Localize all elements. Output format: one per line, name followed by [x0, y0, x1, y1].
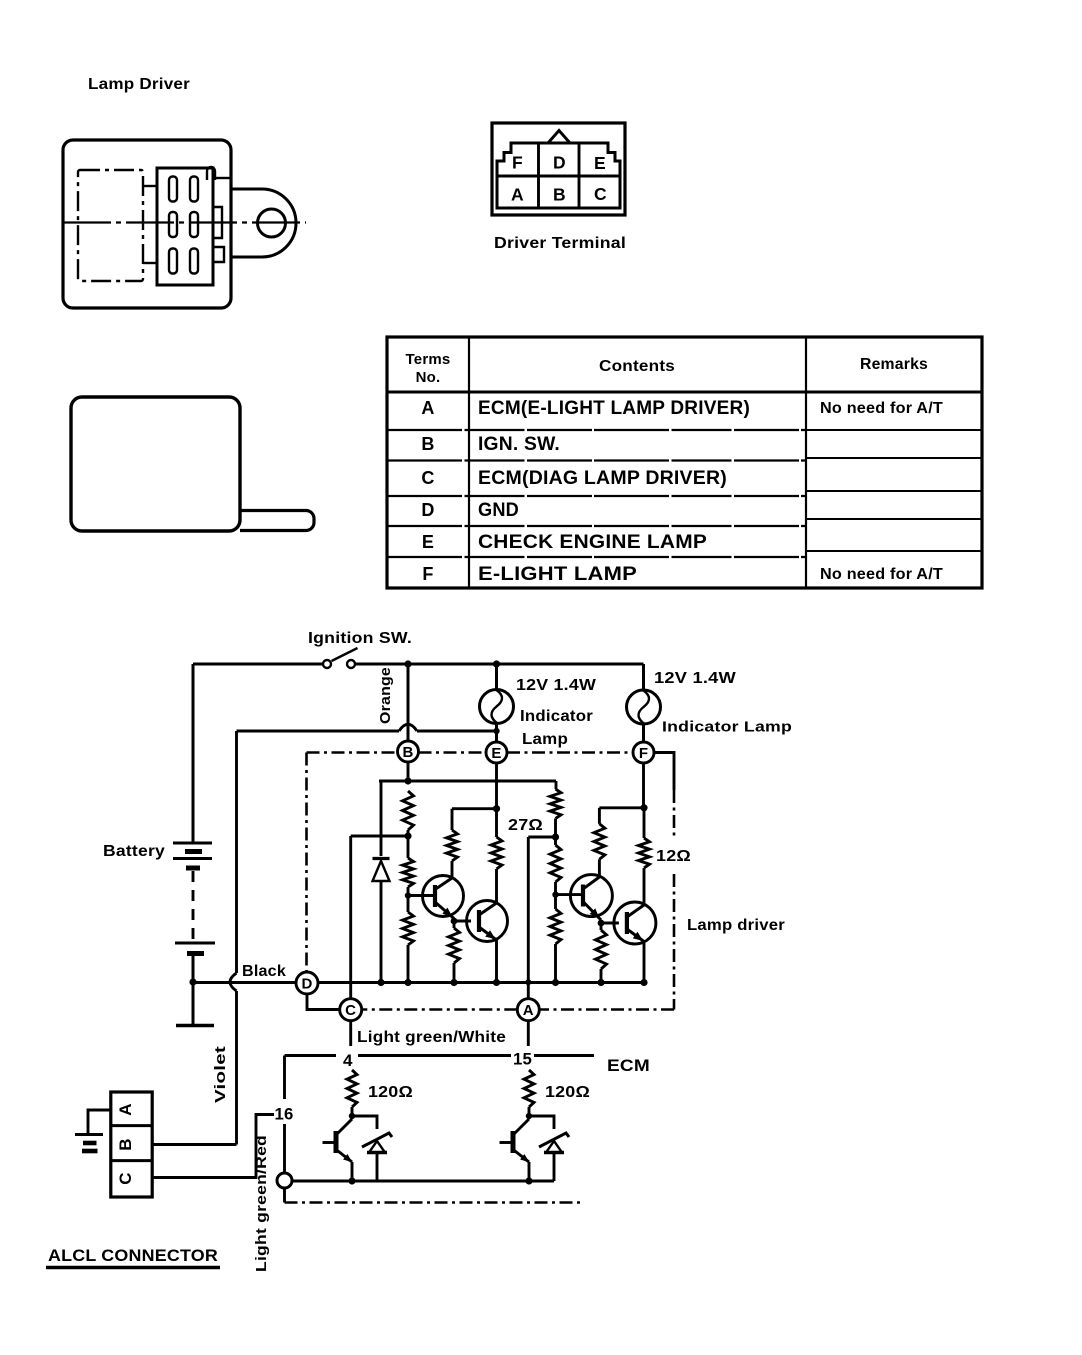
label: ALCL CONNECTOR	[46, 1246, 220, 1268]
label: 12 ohm	[656, 848, 691, 865]
connector: driver terminal pinout	[492, 123, 625, 215]
junction: R6 to ground rail	[450, 979, 457, 986]
pin D label	[553, 153, 566, 173]
node B: relay terminal B	[398, 741, 419, 762]
resistor R4 (Q1 collector load)	[447, 809, 458, 878]
junction on top rail at Orange drop	[404, 660, 411, 667]
table row C: ECM(DIAG LAMP DRIVER)	[421, 468, 727, 489]
svg-text:Lamp: Lamp	[522, 731, 568, 748]
svg-text:A: A	[511, 185, 524, 205]
resistor 120 ohm (elight driver)	[524, 1070, 534, 1116]
svg-text:Lamp Driver: Lamp Driver	[88, 76, 190, 93]
junction: Q3 base node	[552, 891, 558, 897]
junction: diag emitter at rail	[348, 1177, 355, 1184]
resistor R8 (node Y to Q3 base)	[550, 845, 561, 895]
svg-text:D: D	[421, 500, 434, 520]
svg-text:Battery: Battery	[103, 843, 165, 860]
transistor ECM diag driver	[323, 1119, 353, 1181]
svg-text:F: F	[422, 564, 433, 584]
svg-text:IGN. SW.: IGN. SW.	[478, 434, 560, 455]
wire: internal bias rail from B	[379, 780, 556, 783]
svg-text:16: 16	[275, 1105, 294, 1124]
svg-text:A: A	[116, 1103, 135, 1115]
svg-text:E: E	[594, 153, 606, 173]
wire hop: E-lamp wire over Orange wire	[399, 724, 417, 731]
junction: elight emitter at rail	[525, 1177, 532, 1184]
svg-text:15: 15	[513, 1050, 532, 1069]
table row E: CHECK ENGINE LAMP	[422, 532, 707, 553]
pin A label	[511, 185, 524, 205]
svg-text:ECM(DIAG LAMP DRIVER): ECM(DIAG LAMP DRIVER)	[478, 468, 727, 489]
svg-text:B: B	[402, 744, 413, 761]
connector: ALCL diagnostic connector	[111, 1092, 152, 1197]
table header Terms No.	[406, 351, 451, 386]
wire: ECM left drop to pin 16	[283, 1056, 286, 1174]
transistor Q3	[570, 875, 612, 920]
wire: node B to bias rail	[407, 762, 410, 781]
svg-text:ALCL CONNECTOR: ALCL CONNECTOR	[48, 1246, 218, 1265]
wire: internal ground rail	[318, 981, 644, 984]
zener diode (diag clamp)	[362, 1133, 392, 1181]
wire: check lamp to node E	[495, 724, 498, 743]
svg-text:12Ω: 12Ω	[656, 848, 691, 865]
svg-text:E: E	[491, 745, 501, 762]
pin 16 label	[275, 1105, 294, 1124]
resistor R1 (B to node X)	[403, 791, 414, 858]
junction: Q3 emitter / Q4 base node	[598, 920, 605, 927]
svg-text:F: F	[639, 745, 648, 762]
svg-text:A: A	[421, 398, 434, 418]
relay K1 side view outline	[71, 397, 314, 531]
table header Contents	[599, 358, 675, 375]
resistor R6 (Q2 base to ground)	[449, 921, 460, 983]
svg-text:Ignition SW.: Ignition SW.	[308, 630, 412, 647]
pin B label	[553, 185, 566, 205]
label: 120 ohm (pin 15)	[545, 1084, 590, 1101]
wire: ALCL B to Violet	[152, 1143, 236, 1146]
ground: chassis ground bar	[176, 1024, 214, 1028]
junction: Q1 base node	[405, 892, 411, 898]
node A: relay terminal A	[517, 999, 539, 1021]
wire: terminal A to ECM pin 15	[527, 1021, 530, 1046]
wire: pin 16 to ECM boundary	[283, 1188, 286, 1203]
table row F: E-LIGHT LAMP	[422, 564, 943, 585]
node E: relay terminal E	[486, 742, 507, 763]
table row D: GND	[421, 500, 519, 521]
svg-text:D: D	[553, 153, 566, 173]
zener diode (elight clamp)	[539, 1133, 569, 1181]
label: 12V 1.4W (E-light lamp)	[654, 670, 736, 687]
wire: bias rail corner to right chain	[555, 781, 558, 789]
resistor R3 (Q1 base to ground)	[403, 896, 414, 983]
wire: node E down the lamp column	[495, 763, 498, 809]
svg-text:CHECK ENGINE LAMP: CHECK ENGINE LAMP	[478, 532, 707, 553]
label: Driver Terminal	[494, 235, 626, 252]
svg-text:No.: No.	[416, 369, 441, 386]
label: Black wire	[242, 963, 286, 980]
wire: A column up to node Y	[528, 837, 555, 999]
resistor R10 (Q3 collector load)	[594, 808, 605, 877]
junction: diag collector node	[349, 1113, 355, 1119]
wire: battery negative down to chassis	[192, 982, 195, 1024]
wire: ECM top tie bar	[285, 1054, 595, 1057]
junction: R9 to ground rail	[552, 979, 559, 986]
svg-text:Remarks: Remarks	[860, 356, 928, 373]
label: Violet wire	[212, 1046, 229, 1103]
resistor 120 ohm (diag driver)	[347, 1070, 357, 1116]
wire: Violet vertical run	[235, 731, 238, 1145]
boundary: lamp driver bottom edge (dash-dot)	[362, 1008, 674, 1011]
pin C label	[594, 184, 607, 204]
label: Lamp Driver title	[88, 76, 190, 93]
wire: Orange drop to terminal B	[407, 664, 410, 741]
svg-text:Indicator Lamp: Indicator Lamp	[662, 719, 792, 736]
svg-text:C: C	[421, 468, 434, 488]
ALCL pin A label	[116, 1103, 135, 1115]
wire: Q2 emitter to ground rail	[495, 940, 498, 983]
wire: diag wire from E lamp line, horiz segment	[237, 730, 497, 733]
wire: Q3 base lead	[556, 893, 584, 896]
label: Battery	[103, 843, 165, 860]
resistor R2 (node X to Q1 base)	[403, 858, 414, 896]
wire: node F down the lamp column	[642, 763, 645, 808]
svg-text:Terms: Terms	[406, 351, 451, 368]
svg-text:B: B	[553, 185, 566, 205]
wire: C column up to node X	[351, 836, 408, 999]
node C: relay terminal C	[340, 999, 362, 1021]
crossing blob: A column at ground rail	[525, 979, 531, 985]
label: Orange wire	[377, 667, 394, 724]
resistor R11: 12 ohm (F to Q4 collector)	[639, 808, 650, 904]
wire: collector node to zener (elight)	[529, 1116, 554, 1129]
wire: top rail to check lamp	[495, 664, 498, 690]
label: 120 ohm (pin 4)	[368, 1084, 413, 1101]
label: Indicator Lamp (E-light)	[662, 719, 792, 736]
junction: diode to ground rail	[377, 979, 384, 986]
wire: R4 to lamp E column	[452, 807, 497, 810]
pin 15 label	[513, 1050, 532, 1069]
wire: terminal C to ECM pin 4	[349, 1021, 352, 1046]
ALCL pin C label	[116, 1172, 135, 1184]
svg-text:Light green/Red: Light green/Red	[253, 1135, 270, 1272]
wire: top rail elbow to E-light lamp	[642, 664, 645, 690]
boundary: lamp driver right edge (dash-dot)	[673, 790, 676, 1010]
battery	[173, 843, 215, 982]
svg-text:C: C	[345, 1002, 356, 1019]
label: 12V 1.4W (check engine lamp)	[516, 677, 597, 694]
table row B: IGN. SW.	[421, 434, 560, 455]
boundary: lamp driver unit top edge (dash-dot)	[307, 751, 634, 754]
junction: F column at R10	[640, 804, 647, 811]
wire: bias rail to protection diode	[380, 781, 383, 856]
resistor R9 (Q3 base to ground)	[550, 895, 561, 983]
svg-text:Lamp driver: Lamp driver	[687, 917, 785, 934]
table: terminal contents	[387, 337, 982, 588]
pin E label	[594, 153, 606, 173]
wire: ALCL C to pin 16 riser	[152, 1115, 274, 1178]
svg-text:Contents: Contents	[599, 358, 675, 375]
svg-text:27Ω: 27Ω	[508, 817, 543, 834]
svg-text:Violet: Violet	[212, 1046, 229, 1103]
wire: R10 to lamp F column	[599, 806, 644, 809]
wire hop: Violet over Black	[230, 973, 237, 991]
pin 4 label	[343, 1051, 353, 1070]
svg-text:No need for A/T: No need for A/T	[820, 566, 943, 583]
svg-text:12V 1.4W: 12V 1.4W	[516, 677, 597, 694]
junction on top rail at check lamp	[493, 660, 500, 667]
transistor ECM elight driver	[500, 1119, 530, 1181]
label: Indicator Lamp (check engine)	[520, 708, 593, 748]
ground: ALCL ground symbol	[75, 1135, 103, 1152]
junction: R3 to ground rail	[404, 979, 411, 986]
svg-text:Black: Black	[242, 963, 286, 980]
label: Light green/Red wire	[253, 1135, 270, 1272]
svg-text:No need for A/T: No need for A/T	[820, 400, 943, 417]
junction: Q2 emitter at rail	[493, 979, 500, 986]
zener diode D1 (protection)	[373, 859, 390, 983]
junction: diag wire joins check-lamp column	[493, 728, 499, 734]
junction: node Y (A input)	[552, 833, 559, 840]
table header Remarks	[860, 356, 928, 373]
lamp: E-light indicator lamp	[627, 690, 661, 724]
junction: Q4 emitter at rail	[640, 979, 647, 986]
wire: Q4 emitter to ground rail	[643, 942, 646, 983]
resistor R7 (bias to node Y)	[550, 789, 561, 845]
wire: node F to right edge elbow	[654, 753, 674, 791]
svg-text:ECM(E-LIGHT LAMP DRIVER): ECM(E-LIGHT LAMP DRIVER)	[478, 398, 750, 419]
ALCL pin B label	[116, 1138, 135, 1150]
junction: Q1 emitter / Q2 base node	[451, 918, 458, 925]
label: Light green/White wire	[357, 1029, 506, 1046]
mounting bracket of relay	[231, 189, 296, 257]
svg-text:C: C	[594, 184, 607, 204]
svg-text:A: A	[523, 1002, 534, 1019]
wire: ECM internal emitter rail	[292, 1180, 554, 1183]
wire: base lead of Q1	[408, 894, 435, 897]
svg-text:D: D	[301, 976, 312, 993]
label: ECM	[607, 1057, 650, 1075]
wire: switched 12V top rail	[355, 663, 644, 666]
svg-text:E-LIGHT LAMP: E-LIGHT LAMP	[478, 564, 637, 585]
svg-text:12V 1.4W: 12V 1.4W	[654, 670, 736, 687]
boundary: ECM bottom edge (dash-dot)	[285, 1201, 584, 1204]
transistor Q4	[614, 902, 656, 944]
svg-text:120Ω: 120Ω	[545, 1084, 590, 1101]
svg-text:120Ω: 120Ω	[368, 1084, 413, 1101]
junction: E column at R4	[493, 805, 500, 812]
wire: Q4 base lead	[601, 922, 619, 925]
label: 27 ohm	[508, 817, 543, 834]
svg-text:C: C	[116, 1172, 135, 1184]
junction: battery negative node	[189, 978, 196, 985]
wire: battery + to ignition switch	[193, 663, 323, 666]
svg-text:B: B	[116, 1138, 135, 1150]
wire: Q2 base lead	[454, 920, 471, 923]
svg-text:4: 4	[343, 1051, 353, 1070]
wire: collector node to zener (diag)	[352, 1116, 377, 1129]
wire: node D to node C corner	[307, 994, 340, 1010]
svg-text:GND: GND	[478, 500, 519, 521]
table row A: ECM(E-LIGHT LAMP DRIVER)	[421, 398, 943, 419]
wire: Black ground wire to terminal D	[193, 981, 296, 984]
junction: node X (C input)	[404, 832, 411, 839]
lamp: check engine indicator lamp	[480, 690, 514, 724]
svg-text:Light green/White: Light green/White	[357, 1029, 506, 1046]
svg-text:Orange: Orange	[377, 667, 394, 724]
svg-text:Driver Terminal: Driver Terminal	[494, 235, 626, 252]
relay K1: lamp driver unit (top view)	[63, 140, 306, 308]
transistor Q1	[423, 876, 464, 919]
node D: relay terminal D	[296, 972, 318, 994]
svg-text:E: E	[422, 532, 434, 552]
switch: ignition switch	[323, 648, 358, 668]
junction: elight collector node	[526, 1113, 532, 1119]
node F: relay terminal F	[633, 742, 654, 763]
transistor Q2	[467, 901, 508, 942]
wire: battery feed drop	[192, 664, 195, 843]
wire: E-light lamp to node F	[642, 724, 645, 742]
wire: ALCL A to ground	[88, 1110, 111, 1133]
svg-text:Indicator: Indicator	[520, 708, 593, 725]
svg-text:ECM: ECM	[607, 1057, 650, 1075]
svg-text:F: F	[512, 153, 523, 173]
label: Ignition SW.	[308, 630, 412, 647]
svg-text:B: B	[421, 434, 434, 454]
junction: B column on bias rail	[404, 777, 411, 784]
node: ECM pin 16 (open terminal)	[277, 1173, 292, 1188]
label: Lamp driver	[687, 917, 785, 934]
resistor R5: 27 ohm (E to Q2 collector)	[491, 809, 502, 902]
resistor R12 (Q4 base to ground)	[596, 923, 607, 983]
junction: R12 to ground rail	[597, 979, 604, 986]
pin F label	[512, 153, 523, 173]
boundary: lamp driver left edge (dash-dot)	[305, 753, 308, 973]
